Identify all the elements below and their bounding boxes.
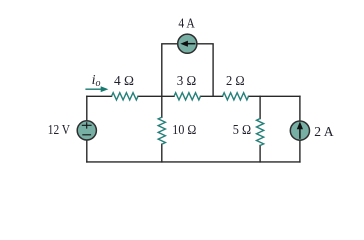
svg-text:10 Ω: 10 Ω <box>172 123 196 138</box>
svg-text:2 Ω: 2 Ω <box>226 74 245 89</box>
svg-text:4 Ω: 4 Ω <box>114 74 134 89</box>
svg-text:2 A: 2 A <box>314 125 334 140</box>
svg-text:5 Ω: 5 Ω <box>233 123 251 138</box>
svg-text:3 Ω: 3 Ω <box>177 74 197 89</box>
svg-text:12 V: 12 V <box>48 123 70 138</box>
svg-text:4 A: 4 A <box>178 16 195 31</box>
